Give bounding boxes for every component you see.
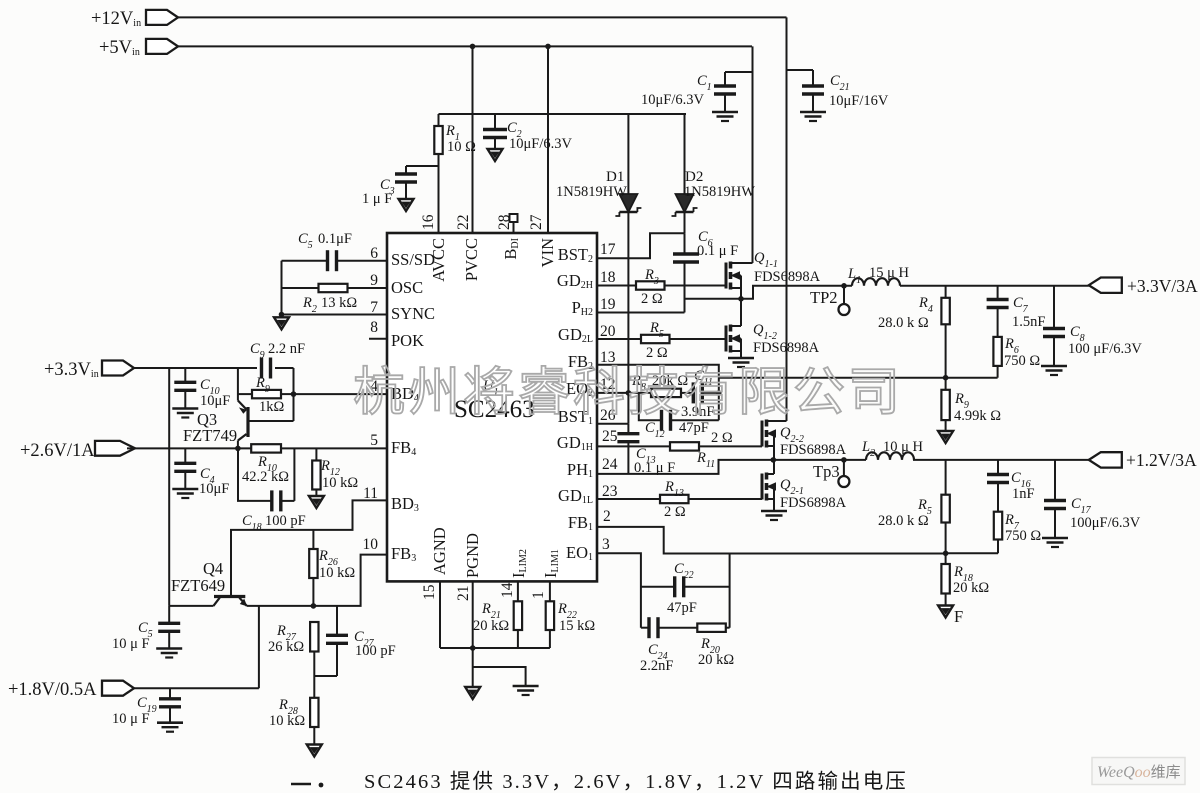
svg-text:PVCC: PVCC	[462, 238, 481, 281]
svg-text:18: 18	[600, 269, 616, 286]
ground arrow AGND	[465, 687, 480, 699]
svg-text:FZT649: FZT649	[171, 576, 225, 595]
weeqoo badge	[1092, 758, 1185, 785]
wire AVCC rail y114	[439, 113, 687, 115]
resistor R20 20k comp1	[697, 624, 726, 632]
svg-text:10μF/6.3V: 10μF/6.3V	[641, 92, 704, 108]
capacitor C19 10uF	[169, 688, 171, 698]
resistor R27 26k	[310, 622, 318, 652]
svg-text:17: 17	[600, 241, 616, 258]
capacitor C22 47pF comp1	[641, 586, 675, 588]
svg-text:D1: D1	[606, 169, 624, 185]
svg-text:FDS6898A: FDS6898A	[780, 442, 847, 458]
svg-text:20 kΩ: 20 kΩ	[698, 652, 734, 668]
junction SYNC ground	[279, 312, 285, 318]
svg-text:19: 19	[600, 296, 616, 313]
svg-text:10 kΩ: 10 kΩ	[319, 565, 355, 581]
svg-text:2 Ω: 2 Ω	[711, 430, 733, 446]
svg-text:+3.3V/3A: +3.3V/3A	[1127, 276, 1198, 296]
svg-text:FDS6898A: FDS6898A	[754, 269, 821, 285]
transistor Q1-1 FDS6898A high-side	[725, 263, 728, 289]
wire phase1 to L2	[773, 459, 866, 461]
wire Q1-2 drain to phase node	[740, 299, 742, 326]
svg-text:10μF/16V: 10μF/16V	[829, 93, 889, 109]
wire BD4 pin4	[294, 393, 388, 395]
svg-text:20 kΩ: 20 kΩ	[953, 580, 989, 596]
capacitor C4 10uF	[184, 448, 186, 463]
junction comp box right	[716, 390, 722, 396]
capacitor C16 1nF	[997, 460, 999, 474]
ground below Q2-1	[761, 510, 787, 513]
transistor Q3 FZT749 PNP	[237, 368, 239, 401]
svg-text:9: 9	[370, 272, 378, 289]
svg-text:16: 16	[420, 214, 437, 230]
svg-text:10μF: 10μF	[200, 393, 230, 409]
svg-text:2 Ω: 2 Ω	[641, 291, 663, 307]
resistor R28 10k	[310, 698, 318, 727]
ground below C4	[172, 488, 198, 491]
wire D1 cathode column to BST1	[627, 212, 629, 424]
svg-text:AVCC: AVCC	[429, 238, 448, 282]
wire +1.8V line	[134, 687, 259, 689]
node +1.8V/0.5A output connector left	[102, 681, 134, 696]
resistor R11 2ohm gate Q2-2	[597, 445, 670, 447]
resistor R12 10k	[315, 448, 317, 460]
svg-text:23: 23	[602, 483, 618, 500]
wire 1.2V output rail	[913, 459, 1089, 461]
wire +5V vertical to Q1-1 drain	[752, 46, 754, 263]
svg-text:3: 3	[602, 536, 610, 553]
earth ground symbol	[513, 685, 539, 688]
wire FB2 long line	[719, 377, 998, 379]
svg-text:20 kΩ: 20 kΩ	[473, 618, 509, 634]
resistor R21 20k ILIM2	[517, 581, 519, 601]
op-amp U1 SC2463 IC body	[387, 233, 597, 581]
wire ground bus	[440, 647, 550, 649]
ground below C21	[800, 111, 826, 114]
capacitor C1 10uF/6.3V	[725, 71, 753, 73]
wire Q2-1 source to ground	[773, 499, 775, 511]
svg-text:10 μ F: 10 μ F	[112, 636, 150, 652]
svg-text:5: 5	[370, 432, 378, 449]
ground below Q1-2	[728, 357, 754, 360]
svg-text:6: 6	[370, 245, 378, 262]
svg-text:10 kΩ: 10 kΩ	[322, 475, 358, 491]
wire AGND pin15	[439, 581, 441, 648]
svg-text:47pF: 47pF	[667, 600, 697, 616]
svg-text:25: 25	[602, 428, 618, 445]
wire 3.3V output rail	[900, 285, 1089, 287]
junction EO2 / D1 column	[626, 390, 632, 396]
node +3.3Vin input connector	[102, 361, 134, 376]
svg-text:1N5819HW: 1N5819HW	[684, 184, 755, 200]
svg-text:TP2: TP2	[810, 288, 838, 307]
svg-text:BST2: BST2	[558, 245, 593, 265]
wire FB1 pin2	[597, 527, 946, 554]
junction FB2 divider	[943, 375, 949, 381]
junction ground bus	[470, 645, 476, 651]
ground below C1	[712, 111, 738, 114]
resistor R2 13k OSC	[348, 287, 388, 289]
wire PGND pin21	[472, 581, 474, 648]
capacitor C3 1uF	[406, 165, 439, 167]
svg-text:28: 28	[496, 214, 513, 230]
capacitor C7 1.5nF	[997, 286, 999, 299]
node +2.6V/1A output connector left	[95, 441, 135, 456]
capacitor C2 10uF/6.3V	[494, 114, 496, 129]
svg-text:VIN: VIN	[538, 238, 557, 267]
svg-text:Tp3: Tp3	[813, 462, 840, 481]
svg-text:1N5819HW: 1N5819HW	[556, 184, 627, 200]
diode D2 1N5819HW	[684, 114, 686, 194]
svg-text:8: 8	[370, 319, 378, 336]
svg-text:22: 22	[455, 215, 472, 231]
junction phase1 FET node	[771, 457, 777, 463]
capacitor C21 10uF/16V	[787, 69, 814, 71]
svg-text:+1.2V/3A: +1.2V/3A	[1126, 450, 1197, 470]
svg-text:26 kΩ: 26 kΩ	[268, 639, 304, 655]
svg-text:2: 2	[603, 508, 611, 525]
capacitor C27 100pF	[336, 606, 338, 635]
node Tp3 test point	[841, 457, 847, 463]
wire PH1 pin24 to phase1	[597, 460, 773, 474]
resistor R22 15k ILIM1	[549, 581, 551, 601]
wire EO1 pin3	[597, 553, 641, 627]
svg-text:15 kΩ: 15 kΩ	[559, 618, 595, 634]
svg-text:2 Ω: 2 Ω	[646, 345, 668, 361]
wire earth ground branch	[473, 667, 526, 686]
transistor Q1-2 FDS6898A low-side	[725, 326, 728, 352]
svg-text:47pF: 47pF	[679, 420, 709, 436]
wire +3.3V column down to Q4 collector	[168, 368, 170, 606]
diode D1 1N5819HW	[627, 114, 629, 194]
wire +1.8V riser to Q4 emitter	[258, 606, 260, 688]
junction FB1 divider	[943, 551, 949, 557]
resistor R5b 28.0k feedback upper 1.2V	[945, 460, 947, 495]
svg-text:+3.3Vin: +3.3Vin	[44, 360, 99, 380]
wire POK pin8 stub	[369, 338, 387, 340]
svg-text:SC2463 提供 3.3V，2.6V，1.8V，1.2V: SC2463 提供 3.3V，2.6V，1.8V，1.2V 四路输出电压	[364, 770, 908, 793]
svg-text:750 Ω: 750 Ω	[1005, 528, 1041, 544]
svg-text:10μF/6.3V: 10μF/6.3V	[509, 136, 572, 152]
wire EO2 pin12	[597, 392, 651, 394]
capacitor C8 100uF/6.3V	[1053, 286, 1055, 328]
capacitor C5b 10uF at Q4 collector	[168, 606, 170, 623]
wire FB2 pin13 to comp box	[597, 365, 719, 421]
svg-text:AGND: AGND	[430, 527, 449, 575]
junction emitter R26 R27	[311, 603, 317, 609]
svg-text:1nF: 1nF	[1012, 486, 1035, 502]
svg-text:100 μF/6.3V: 100 μF/6.3V	[1068, 341, 1142, 357]
wire Q4 collector line	[169, 605, 213, 607]
resistor R10 42.2k	[251, 444, 281, 452]
svg-text:21: 21	[455, 586, 472, 602]
svg-text:FDS6898A: FDS6898A	[780, 495, 847, 511]
svg-text:20: 20	[600, 323, 616, 340]
svg-text:+1.8V/0.5A: +1.8V/0.5A	[8, 680, 97, 700]
capacitor C6 0.1uF bootstrap	[684, 233, 686, 254]
svg-text:15: 15	[421, 584, 438, 600]
wire PH2 pin19	[597, 312, 685, 314]
wire BST2 pin17 to bootstrap node	[597, 233, 685, 258]
svg-text:POK: POK	[391, 331, 424, 350]
wire SSSD/OSC/SYNC ground column	[281, 261, 283, 315]
ground below C5b	[156, 647, 182, 650]
ground below C10	[172, 407, 198, 410]
svg-text:杭州将睿科技有限公司: 杭州将睿科技有限公司	[353, 365, 903, 422]
svg-text:FDS6898A: FDS6898A	[753, 340, 820, 356]
junction +5V / VIN	[545, 44, 551, 50]
svg-text:1kΩ: 1kΩ	[259, 399, 285, 415]
ground below C17	[1042, 537, 1068, 540]
inductor L1 15uH	[852, 278, 900, 286]
resistor R18 20k feedback lower 1.2V	[945, 553, 947, 564]
capacitor C11 3.9nF comp	[681, 392, 693, 394]
capacitor C17 100uF/6.3V	[1054, 460, 1056, 500]
wire Q1-1 source to phase node	[740, 288, 742, 299]
svg-text:SYNC: SYNC	[391, 304, 435, 323]
ground arrow below R9	[938, 431, 953, 443]
svg-text:28.0 k Ω: 28.0 k Ω	[878, 513, 929, 529]
svg-text:1.5nF: 1.5nF	[1012, 314, 1045, 330]
svg-text:10 μ H: 10 μ H	[883, 439, 924, 455]
wire C9 right leg down to BD4	[293, 368, 295, 421]
svg-text:15 μ H: 15 μ H	[869, 265, 910, 281]
svg-text:+2.6V/1A: +2.6V/1A	[20, 441, 95, 461]
svg-text:D2: D2	[685, 169, 703, 185]
svg-text:2.2 nF: 2.2 nF	[268, 341, 305, 357]
svg-text:750 Ω: 750 Ω	[1004, 353, 1040, 369]
resistor R4 28.0k feedback upper	[945, 286, 947, 298]
wire +3.3Vin rail	[134, 367, 257, 369]
svg-text:1 μ F: 1 μ F	[362, 191, 392, 207]
svg-text:100 pF: 100 pF	[265, 513, 306, 529]
capacitor C13 0.1uF bootstrap1	[627, 424, 629, 434]
svg-text:2 Ω: 2 Ω	[664, 504, 686, 520]
wire +12V vertical to Q2-2 drain	[786, 17, 788, 421]
svg-text:1: 1	[530, 591, 547, 599]
svg-text:10: 10	[363, 536, 379, 553]
wire BD3 pin11 path	[231, 500, 387, 596]
svg-text:27: 27	[528, 214, 545, 230]
wire Q2-2 source to phase1	[773, 446, 775, 460]
node +5Vin input connector	[146, 39, 178, 54]
junction phase2 node	[738, 296, 744, 302]
caption figure dash	[291, 783, 311, 785]
svg-text:14: 14	[499, 582, 516, 598]
wire comp1 right leg to FB1	[729, 554, 731, 628]
junction BD4 node	[291, 391, 297, 397]
wire Q4 emitter line to FB3	[247, 555, 387, 606]
wire +2.6V line to FB4 node	[127, 447, 251, 449]
pin 28 BDI square pad	[510, 214, 518, 222]
inductor L2 10uH	[866, 452, 914, 460]
wire +5V top rail	[178, 45, 752, 47]
wire D2 cathode to BST2 node	[684, 212, 686, 233]
resistor R13 2ohm gate Q2-1	[597, 498, 660, 500]
resistor R8 20k comp	[651, 389, 681, 397]
resistor R26 10k	[312, 530, 314, 549]
svg-text:100 pF: 100 pF	[355, 643, 396, 659]
svg-text:100μF/6.3V: 100μF/6.3V	[1070, 515, 1141, 531]
ground arrow below C2	[488, 149, 503, 161]
ground arrow below R28	[307, 745, 322, 757]
svg-text:7: 7	[370, 299, 378, 316]
junction +5V / PVCC	[470, 44, 476, 50]
resistor R3 2ohm gate Q1-1	[597, 285, 636, 287]
svg-text:WeeQoo维库: WeeQoo维库	[1097, 764, 1181, 781]
svg-text:42.2 kΩ: 42.2 kΩ	[242, 469, 289, 485]
wire Q3 base line	[248, 420, 294, 422]
capacitor C24 2.2nF comp1	[641, 627, 649, 629]
svg-text:10μF: 10μF	[199, 481, 229, 497]
node +1.2V/3A output connector	[1089, 452, 1122, 467]
svg-text:2.2nF: 2.2nF	[640, 658, 673, 674]
wire Q1-2 source to ground	[740, 351, 742, 358]
junction Q3 collector / FB4 divider	[235, 446, 241, 452]
wire +12V top rail	[178, 16, 787, 18]
svg-text:13: 13	[600, 349, 616, 366]
ground arrow below R18 node F	[938, 606, 953, 618]
transistor Q4 FZT649 NPN	[214, 595, 245, 598]
wire R7 bottom to FB1 junction	[946, 552, 998, 554]
transistor Q2-2 FDS6898A high-side	[761, 421, 764, 447]
node +12Vin input connector	[146, 10, 178, 25]
node TP2 test point	[841, 283, 847, 289]
transistor Q2-1 FDS6898A low-side	[761, 474, 764, 500]
ground arrow below C3	[399, 199, 414, 211]
capacitor C9 2.2nF	[260, 358, 263, 379]
wire ground stem	[472, 648, 474, 687]
resistor R7 750ohm	[994, 512, 1002, 540]
svg-text:10 μ F: 10 μ F	[112, 711, 150, 727]
capacitor C5 0.1uF soft-start	[338, 260, 387, 262]
svg-text:FZT749: FZT749	[183, 426, 237, 445]
wire VIN pin27 from +5V	[547, 46, 549, 233]
wire BST1 pin26	[597, 423, 628, 425]
ground below C19	[157, 721, 183, 724]
svg-text:F: F	[954, 607, 963, 626]
svg-text:OSC: OSC	[391, 278, 423, 297]
svg-text:4.99k Ω: 4.99k Ω	[954, 408, 1001, 424]
ground below C8	[1041, 365, 1067, 368]
svg-text:PGND: PGND	[463, 533, 482, 578]
capacitor C12 47pF comp parallel	[639, 393, 662, 420]
wire SYNC pin7 to ground column	[282, 314, 388, 316]
wire phase2 node to FET junction	[685, 298, 742, 300]
capacitor C18 100pF parallel R10	[238, 448, 272, 501]
svg-text:28.0 k Ω: 28.0 k Ω	[878, 315, 929, 331]
ground arrow below SYNC	[274, 317, 289, 329]
wire Q2-1 drain to phase1	[773, 460, 775, 474]
ground arrow below R12	[309, 496, 324, 508]
svg-text:13 kΩ: 13 kΩ	[321, 295, 357, 311]
resistor R9 4.99k feedback lower	[945, 378, 947, 390]
capacitor C10 10uF	[184, 368, 186, 382]
svg-text:0.1μF: 0.1μF	[318, 231, 352, 247]
resistor R1 10ohm	[438, 114, 440, 126]
svg-text:0.1 μ F: 0.1 μ F	[697, 243, 738, 259]
svg-text:24: 24	[602, 456, 618, 473]
node +3.3V/3A output connector	[1089, 278, 1122, 293]
resistor R6 750ohm	[993, 337, 1001, 366]
resistor R9b 1k base-emitter	[238, 393, 252, 395]
wire phase2 jog to output rail	[741, 286, 852, 299]
resistor R5 2ohm gate Q1-2	[597, 338, 641, 340]
wire PVCC pin22 from +5V	[472, 46, 474, 233]
svg-text:10 kΩ: 10 kΩ	[269, 713, 305, 729]
